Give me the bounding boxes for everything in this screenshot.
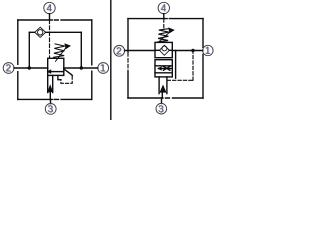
- port 1 rail R: [172, 50, 203, 52]
- port 4 stub L: [49, 14, 51, 20]
- flow arrow head L: [47, 69, 52, 74]
- envelope box R right edge (gap at rail): [202, 19, 204, 98]
- port 1 rail L: [64, 67, 98, 69]
- port 2 rail L: [14, 67, 48, 69]
- band bottom R: [155, 72, 172, 74]
- band X stroke 1 R: [163, 66, 170, 70]
- rail stub inside square R right: [169, 49, 172, 51]
- envelope box R left edge upper: [127, 19, 129, 52]
- check valve ball L: [38, 30, 43, 35]
- envelope box L bottom edge: [18, 98, 92, 100]
- check valve diamond R: [159, 45, 169, 55]
- nose left wall R: [158, 77, 160, 94]
- port 4 stub R: [163, 14, 165, 19]
- junction dot L left: [28, 66, 31, 69]
- nose right wall L: [52, 75, 54, 92]
- port 3 stem R: [161, 93, 163, 98]
- nose right wall R: [166, 77, 168, 94]
- svg-text:3: 3: [48, 105, 54, 116]
- band arrow shaft R: [159, 68, 173, 70]
- port 3 stub to circle L: [50, 99, 52, 103]
- spring L: [54, 44, 65, 57]
- pilot dashed horizontal R: [167, 79, 193, 81]
- envelope box L left edge (gap at rail): [17, 20, 19, 99]
- svg-text:2: 2: [6, 64, 12, 75]
- envelope box R top edge: [128, 18, 203, 20]
- port 4 circle L: [44, 2, 55, 13]
- envelope box R left edge lower: [127, 72, 129, 99]
- port 3 circle L: [45, 104, 56, 115]
- pilot solid vertical R: [175, 51, 177, 79]
- port 3 arrow L: [47, 84, 53, 92]
- envelope box R left edge dashed middle: [127, 53, 129, 72]
- main valve square L: [48, 58, 64, 75]
- upper square R: [155, 42, 172, 57]
- spring R: [158, 29, 169, 42]
- svg-text:3: 3: [159, 104, 165, 115]
- pilot diagonal L: [64, 69, 73, 76]
- check valve diamond L: [35, 27, 46, 37]
- spring adjust arrow shaft L: [56, 47, 67, 62]
- flow arrow shaft L: [51, 71, 64, 73]
- port 1 circle L: [98, 63, 109, 74]
- port 2 circle L: [3, 63, 14, 74]
- lower square R: [155, 60, 172, 77]
- check valve ball R: [162, 46, 167, 51]
- envelope box R bottom edge: [128, 97, 203, 99]
- port 3 stub to circle R: [161, 98, 163, 103]
- pilot dashed from port 4 R: [163, 19, 165, 28]
- junction dot L right: [80, 66, 83, 69]
- pilot solid return to square bottom L: [58, 75, 61, 79]
- band arrow head R: [157, 66, 162, 70]
- port 3 stem L: [49, 92, 51, 99]
- spring adjust arrow head L: [64, 43, 71, 49]
- port 4 circle R: [158, 2, 169, 13]
- svg-text:1: 1: [205, 46, 211, 57]
- check bypass line L: [29, 31, 81, 33]
- band X stroke 2 R: [163, 66, 170, 70]
- port 3 arrow R: [160, 85, 167, 93]
- rail stub inside square R left: [155, 49, 160, 51]
- pilot dashed line from port 4 L: [49, 20, 51, 58]
- pilot dashed vertical R: [192, 51, 194, 81]
- panel divider: [110, 0, 112, 120]
- spring adjust arrow shaft R: [158, 31, 170, 42]
- spring adjust arrow head R: [168, 27, 175, 33]
- pilot dashed right leg L: [61, 76, 72, 83]
- bypass right branch L: [80, 32, 82, 68]
- envelope box L top edge: [18, 19, 92, 21]
- bypass left branch L: [28, 32, 30, 68]
- envelope box L right edge (gap at rail): [91, 20, 93, 99]
- port 1 circle R: [203, 45, 213, 55]
- port 2 circle R: [114, 45, 125, 56]
- svg-text:1: 1: [100, 64, 106, 75]
- port 3 circle R: [156, 103, 167, 114]
- port 2 rail R: [125, 50, 155, 52]
- nose left wall L: [47, 75, 49, 92]
- svg-text:2: 2: [116, 46, 122, 57]
- junction dot R: [191, 49, 194, 52]
- band top R: [155, 65, 172, 67]
